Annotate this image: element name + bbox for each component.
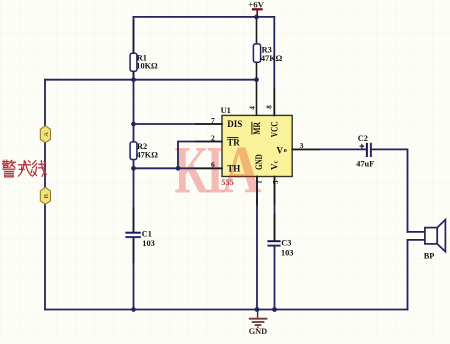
svg-text:555: 555 — [221, 178, 233, 187]
svg-text:C1: C1 — [142, 229, 152, 238]
svg-text:V: V — [277, 146, 284, 156]
svg-text:R3: R3 — [262, 45, 272, 54]
svg-text:103: 103 — [142, 239, 154, 248]
svg-text:+6V: +6V — [248, 0, 264, 10]
svg-text:GND: GND — [254, 154, 264, 170]
svg-text:3: 3 — [300, 141, 304, 150]
svg-text:MR: MR — [252, 122, 262, 135]
svg-text:47uF: 47uF — [356, 159, 374, 168]
svg-text:BP: BP — [424, 251, 435, 260]
svg-text:10KΩ: 10KΩ — [136, 61, 158, 70]
svg-text:VCC: VCC — [270, 121, 280, 137]
svg-text:C2: C2 — [358, 134, 368, 143]
svg-text:TR: TR — [227, 137, 240, 147]
svg-text:6: 6 — [211, 160, 215, 169]
svg-text:47KΩ: 47KΩ — [261, 54, 283, 63]
svg-text:c: c — [273, 161, 280, 164]
svg-text:2: 2 — [211, 133, 215, 142]
svg-text:47KΩ: 47KΩ — [137, 151, 159, 160]
svg-text:4: 4 — [248, 106, 256, 110]
svg-text:8: 8 — [265, 105, 273, 109]
svg-text:103: 103 — [281, 248, 293, 257]
svg-text:U1: U1 — [221, 106, 231, 115]
svg-text:B: B — [43, 193, 50, 198]
svg-text:5: 5 — [272, 180, 280, 184]
svg-text:K: K — [175, 133, 209, 208]
svg-text:7: 7 — [211, 116, 215, 125]
svg-text:TH: TH — [227, 164, 240, 174]
svg-text:C3: C3 — [281, 238, 291, 247]
svg-text:DIS: DIS — [227, 119, 242, 129]
svg-text:A: A — [43, 132, 50, 137]
svg-text:GND: GND — [249, 327, 267, 336]
svg-text:1: 1 — [255, 180, 263, 184]
